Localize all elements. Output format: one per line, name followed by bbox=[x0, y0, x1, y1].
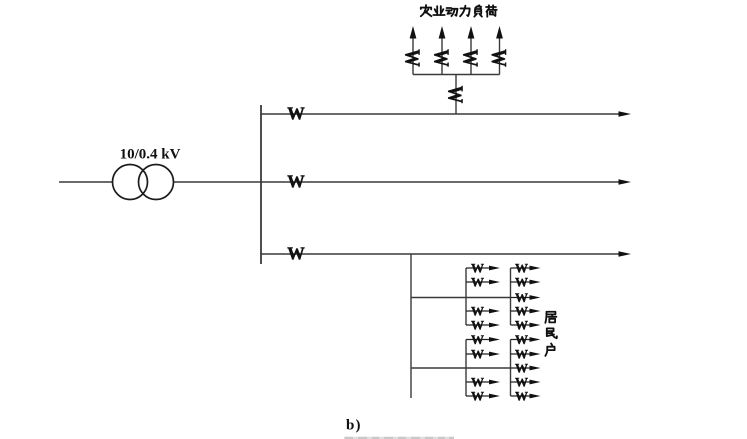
svg-text:W: W bbox=[471, 318, 484, 333]
svg-text:W: W bbox=[287, 172, 305, 192]
svg-text:W: W bbox=[400, 49, 423, 67]
svg-text:W: W bbox=[471, 261, 484, 276]
svg-text:W: W bbox=[429, 49, 452, 67]
svg-text:W: W bbox=[515, 375, 528, 390]
svg-text:W: W bbox=[515, 275, 528, 290]
svg-text:W: W bbox=[515, 261, 528, 276]
svg-text:W: W bbox=[287, 104, 305, 124]
svg-text:W: W bbox=[515, 389, 528, 404]
svg-text:W: W bbox=[515, 347, 528, 362]
svg-text:W: W bbox=[515, 332, 528, 347]
svg-text:W: W bbox=[443, 86, 466, 104]
svg-text:b): b) bbox=[346, 418, 362, 434]
svg-text:W: W bbox=[515, 318, 528, 333]
svg-text:W: W bbox=[471, 275, 484, 290]
svg-text:W: W bbox=[515, 361, 528, 376]
svg-text:W: W bbox=[471, 389, 484, 404]
svg-text:W: W bbox=[471, 304, 484, 319]
svg-text:W: W bbox=[471, 375, 484, 390]
svg-text:W: W bbox=[515, 304, 528, 319]
svg-text:W: W bbox=[486, 49, 509, 67]
svg-text:W: W bbox=[471, 332, 484, 347]
svg-text:10/0.4 kV: 10/0.4 kV bbox=[120, 147, 181, 163]
svg-text:W: W bbox=[458, 49, 481, 67]
svg-text:W: W bbox=[287, 244, 305, 264]
svg-text:W: W bbox=[471, 347, 484, 362]
